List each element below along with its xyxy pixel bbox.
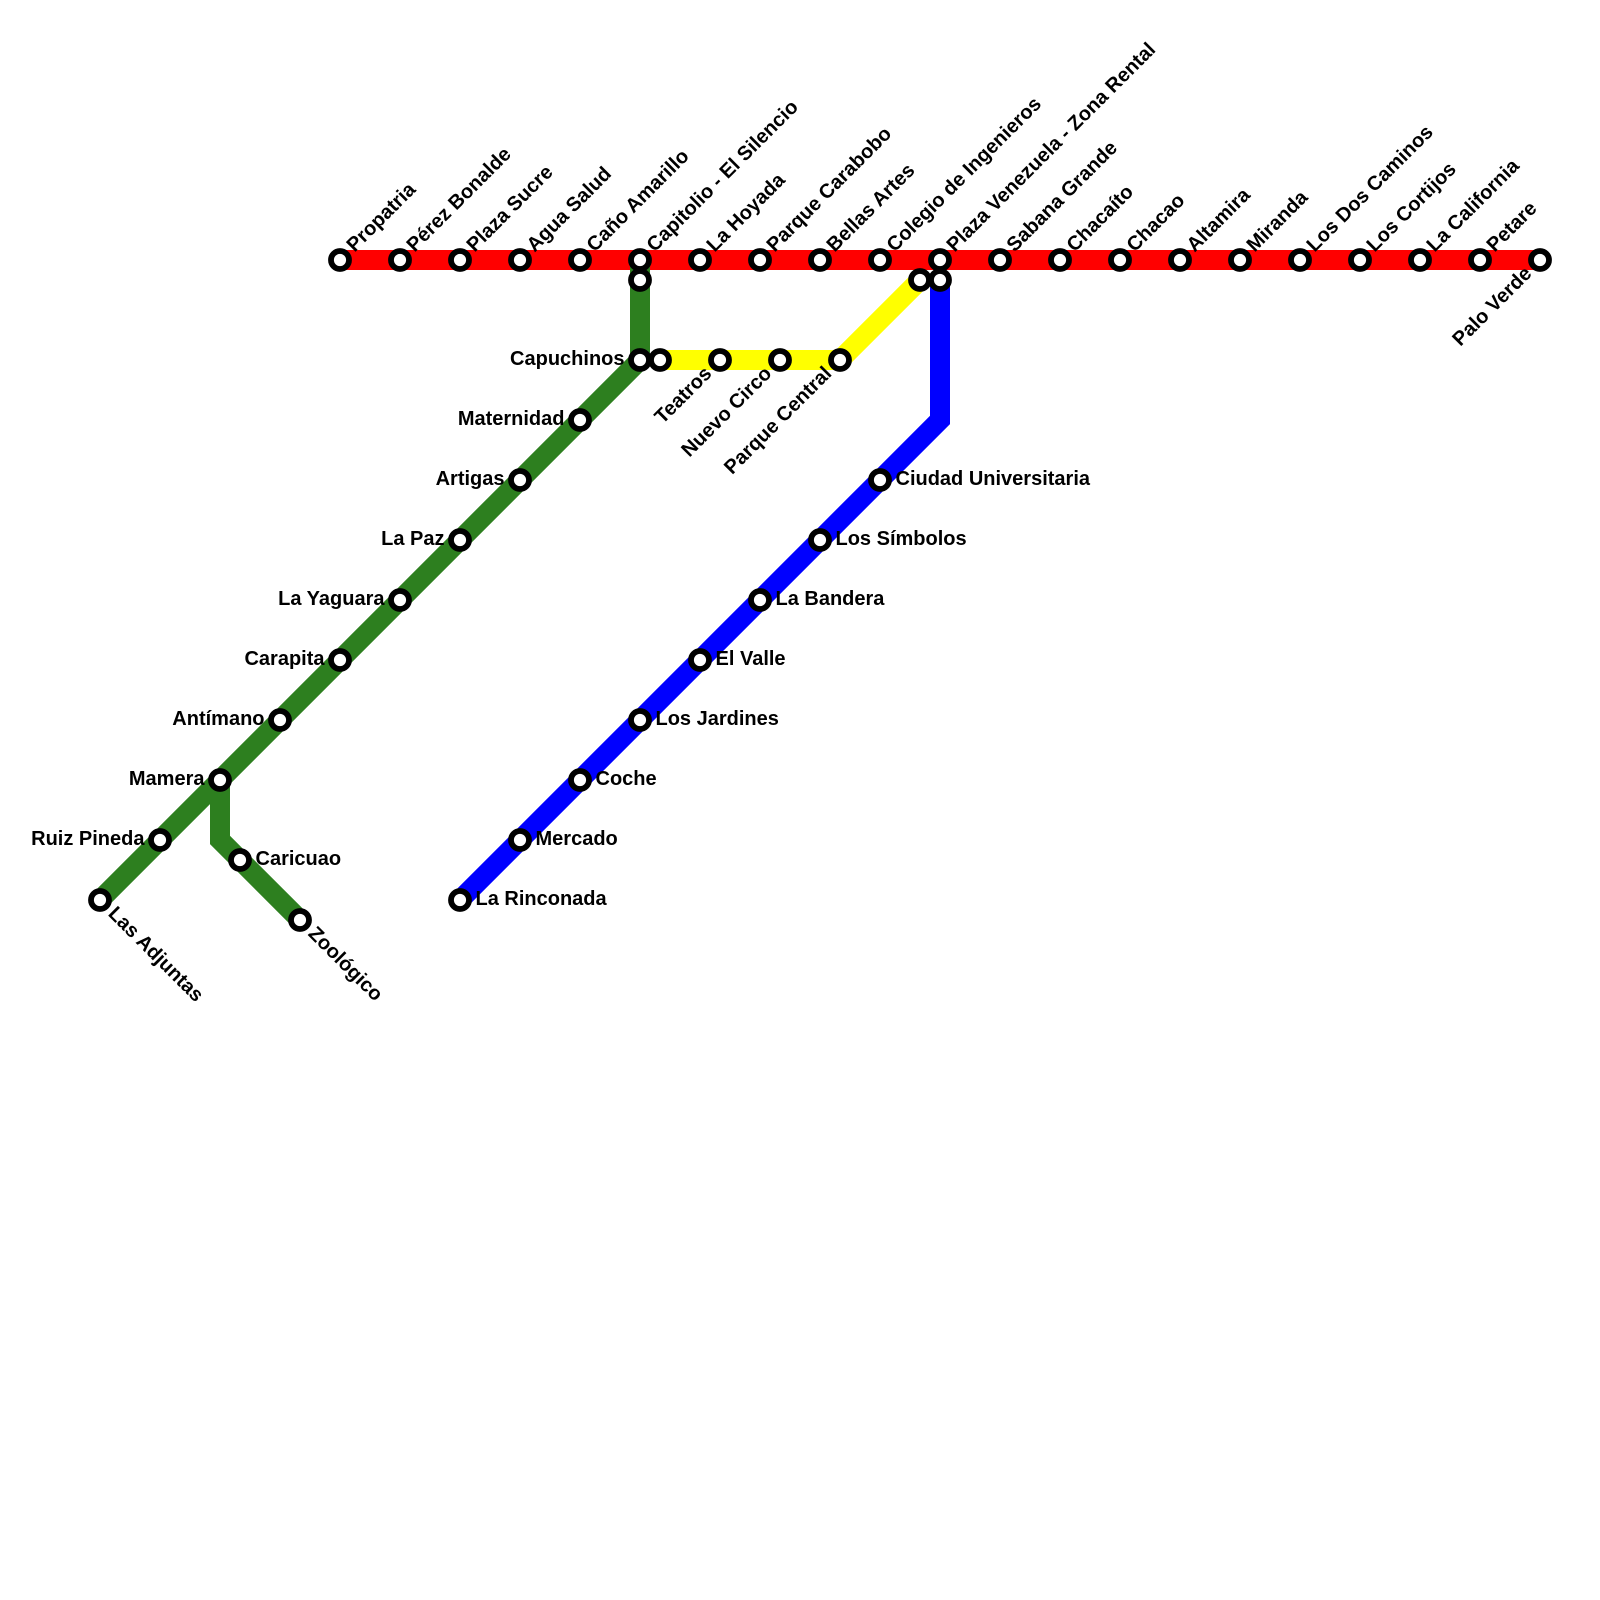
svg-text:La Rinconada: La Rinconada (476, 888, 608, 910)
station circle Palo Verde (1531, 251, 1549, 269)
station circle Los Cortijos (1351, 251, 1369, 269)
station circle Altamira (1171, 251, 1189, 269)
Línea 2 branch (green): Mamera - Zoológico (220, 780, 300, 920)
Línea 4 (yellow): Capuchinos - Plaza Venezuela (660, 280, 920, 360)
station circle Carapita (331, 651, 349, 669)
station circle Plaza Venezuela blue-line transfer (931, 271, 949, 289)
station circle Antímano (271, 711, 289, 729)
Línea 3 (blue): Plaza Venezuela - La Rinconada (460, 280, 940, 900)
svg-text:Maternidad: Maternidad (458, 408, 565, 430)
station circle Colegio de Ingenieros (871, 251, 889, 269)
station circle Bellas Artes (811, 251, 829, 269)
station circle Las Adjuntas (91, 891, 109, 909)
station circle Capuchinos yellow-line transfer (651, 351, 669, 369)
station circle Chacao (1111, 251, 1129, 269)
svg-text:Los Símbolos: Los Símbolos (836, 528, 967, 550)
station circle La Paz (451, 531, 469, 549)
station circle Miranda (1231, 251, 1249, 269)
station circle Maternidad (571, 411, 589, 429)
station circle La Bandera (751, 591, 769, 609)
station circle Caño Amarillo (571, 251, 589, 269)
station circle Plaza Venezuela - Zona Rental (931, 251, 949, 269)
station circle Plaza Sucre (451, 251, 469, 269)
station circle Zoológico (291, 911, 309, 929)
Línea 2 (green): Capitolio - Las Adjuntas (100, 260, 640, 900)
svg-text:Ciudad Universitaria: Ciudad Universitaria (896, 468, 1091, 490)
station circle Petare (1471, 251, 1489, 269)
svg-text:Antímano: Antímano (172, 708, 264, 730)
svg-text:La Paz: La Paz (381, 528, 444, 550)
station circle La Yaguara (391, 591, 409, 609)
station circle El Valle (691, 651, 709, 669)
station circle Parque Central (831, 351, 849, 369)
svg-text:Los Jardines: Los Jardines (656, 708, 779, 730)
station circle Parque Carabobo (751, 251, 769, 269)
station circle Capitolio - El Silencio (631, 251, 649, 269)
station circle Ruiz Pineda (151, 831, 169, 849)
station circle Los Jardines (631, 711, 649, 729)
svg-text:Mercado: Mercado (536, 828, 618, 850)
station circle Pérez Bonalde (391, 251, 409, 269)
Línea 1 (red): Propatria - Palo Verde (340, 250, 1540, 270)
svg-text:Caricuao: Caricuao (256, 848, 342, 870)
svg-text:Artigas: Artigas (436, 468, 505, 490)
station circle Nuevo Circo (771, 351, 789, 369)
svg-text:Carapita: Carapita (244, 648, 325, 670)
station circle Los Símbolos (811, 531, 829, 549)
station circle Plaza Venezuela yellow-line transfer (911, 271, 929, 289)
station circle Propatria (331, 251, 349, 269)
station circle Capitolio lower (green line transfer) (631, 271, 649, 289)
station circle Sabana Grande (991, 251, 1009, 269)
station circle Ciudad Universitaria (871, 471, 889, 489)
station circle Artigas (511, 471, 529, 489)
svg-text:Mamera: Mamera (129, 768, 205, 790)
svg-text:La Yaguara: La Yaguara (278, 588, 385, 610)
station circle Los Dos Caminos (1291, 251, 1309, 269)
station circle Teatros (711, 351, 729, 369)
svg-text:Ruiz Pineda: Ruiz Pineda (31, 828, 145, 850)
station circle La Hoyada (691, 251, 709, 269)
station circle Coche (571, 771, 589, 789)
svg-text:La Bandera: La Bandera (776, 588, 886, 610)
svg-text:Capuchinos: Capuchinos (510, 348, 624, 370)
svg-text:El Valle: El Valle (716, 648, 786, 670)
station circle La Rinconada (451, 891, 469, 909)
station circle Agua Salud (511, 251, 529, 269)
svg-text:Coche: Coche (596, 768, 657, 790)
station circle La California (1411, 251, 1429, 269)
station circle Caricuao (231, 851, 249, 869)
station circle Mamera (211, 771, 229, 789)
station circle Mercado (511, 831, 529, 849)
station circle Capuchinos (631, 351, 649, 369)
station circle Chacaíto (1051, 251, 1069, 269)
